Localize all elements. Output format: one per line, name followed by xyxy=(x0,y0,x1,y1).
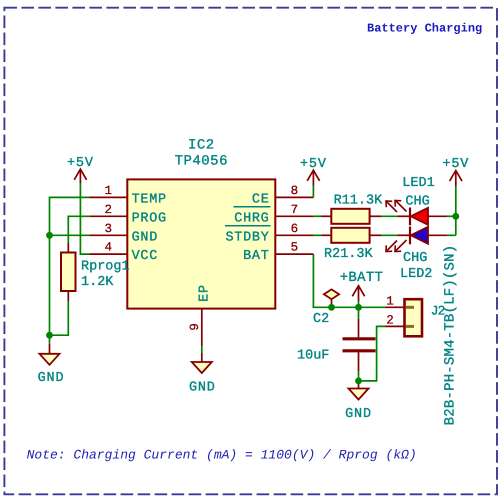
svg-text:8: 8 xyxy=(291,184,299,198)
svg-text:STDBY: STDBY xyxy=(225,230,269,245)
svg-text:+5V: +5V xyxy=(442,157,469,172)
svg-text:CHG: CHG xyxy=(403,251,427,266)
svg-text:BAT: BAT xyxy=(243,249,269,264)
svg-text:CE: CE xyxy=(252,192,270,207)
svg-text:LED1: LED1 xyxy=(402,176,434,191)
svg-text:TEMP: TEMP xyxy=(132,192,167,207)
svg-text:CHRG: CHRG xyxy=(234,211,269,226)
svg-text:+5V: +5V xyxy=(300,157,327,172)
svg-text:4: 4 xyxy=(105,241,113,255)
svg-text:Rprog1: Rprog1 xyxy=(81,260,130,275)
svg-text:B2B-PH-SM4-TB(LF)(SN): B2B-PH-SM4-TB(LF)(SN) xyxy=(443,245,459,426)
svg-text:PROG: PROG xyxy=(132,211,167,226)
svg-text:9: 9 xyxy=(188,323,202,331)
svg-text:1: 1 xyxy=(105,184,113,198)
svg-text:Battery Charging: Battery Charging xyxy=(367,22,482,36)
svg-text:GND: GND xyxy=(345,407,372,422)
svg-text:GND: GND xyxy=(38,371,65,386)
svg-text:3: 3 xyxy=(105,222,113,236)
svg-text:+5V: +5V xyxy=(67,156,94,171)
svg-text:1: 1 xyxy=(386,294,394,308)
svg-text:CHG: CHG xyxy=(405,195,429,210)
svg-text:GND: GND xyxy=(132,230,158,245)
svg-text:Note: Charging Current (mA) =: Note: Charging Current (mA) = 1100(V) / … xyxy=(27,448,417,463)
svg-text:2: 2 xyxy=(386,313,394,327)
svg-text:GND: GND xyxy=(189,381,216,396)
svg-text:+BATT: +BATT xyxy=(340,270,384,286)
svg-text:6: 6 xyxy=(291,222,299,236)
svg-text:2: 2 xyxy=(105,203,113,217)
svg-text:5: 5 xyxy=(291,241,299,255)
svg-text:R11.3K: R11.3K xyxy=(334,194,384,209)
svg-text:R21.3K: R21.3K xyxy=(324,247,374,262)
svg-text:VCC: VCC xyxy=(132,249,158,264)
svg-text:IC2: IC2 xyxy=(188,137,215,153)
svg-text:C2: C2 xyxy=(313,312,329,327)
svg-text:LED2: LED2 xyxy=(400,267,432,282)
svg-text:TP4056: TP4056 xyxy=(175,154,228,170)
svg-text:EP: EP xyxy=(198,284,213,302)
svg-text:7: 7 xyxy=(291,203,299,217)
svg-text:1.2K: 1.2K xyxy=(81,275,114,290)
svg-text:10uF: 10uF xyxy=(297,349,329,364)
